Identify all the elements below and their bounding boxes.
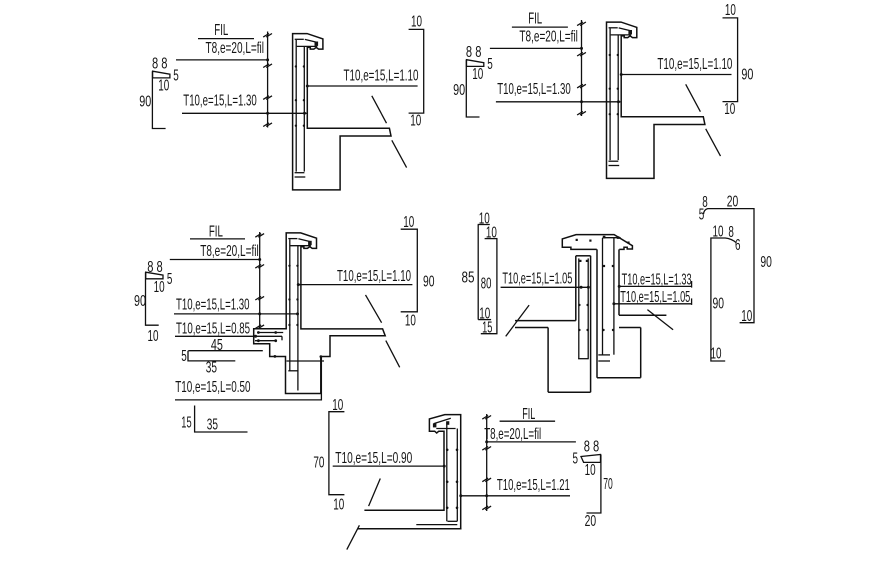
svg-text:10: 10 bbox=[472, 66, 483, 83]
svg-text:10: 10 bbox=[725, 2, 736, 19]
stirrup tick bbox=[482, 416, 491, 420]
leader T10 1.30 bbox=[496, 101, 621, 103]
break diagonal bbox=[347, 525, 360, 549]
bent bar shape bbox=[153, 71, 170, 78]
stirrup dots bbox=[602, 329, 614, 331]
junction dot bbox=[620, 73, 623, 76]
junction dot bbox=[258, 312, 261, 315]
parapet wall outline bbox=[607, 22, 705, 178]
rebar hook long bbox=[416, 524, 457, 526]
wall rebar right bbox=[456, 429, 458, 522]
svg-text:T8,e=20,L=fil: T8,e=20,L=fil bbox=[484, 426, 541, 443]
rebar hook bbox=[448, 520, 458, 522]
svg-text:10: 10 bbox=[724, 101, 735, 118]
svg-text:T8,e=20,L=fil: T8,e=20,L=fil bbox=[519, 29, 578, 46]
break diagonal bbox=[369, 479, 381, 507]
rebar hook bbox=[609, 160, 619, 162]
svg-text:10: 10 bbox=[713, 224, 724, 241]
rebar hook bbox=[609, 165, 620, 167]
svg-text:T10,e=15,L=1.10: T10,e=15,L=1.10 bbox=[337, 268, 411, 285]
left wall top bbox=[576, 255, 591, 257]
right slab top bbox=[619, 314, 666, 316]
wall rebar left bbox=[446, 422, 448, 522]
bar leg 45 bbox=[188, 350, 262, 352]
right dim bracket bbox=[409, 29, 424, 113]
wall rebar right bbox=[303, 47, 305, 172]
left wall rebar bbox=[578, 258, 580, 358]
svg-text:5: 5 bbox=[173, 68, 179, 85]
coping cap outline bbox=[562, 235, 632, 250]
cap rebar upper bbox=[436, 428, 455, 430]
bar hook bbox=[281, 336, 283, 340]
stirrup dots bbox=[609, 54, 619, 116]
svg-text:20: 20 bbox=[727, 194, 739, 211]
right wall right face bbox=[618, 249, 620, 315]
leader T10 1.33 bbox=[619, 285, 691, 287]
break diagonal bbox=[686, 84, 701, 111]
cap rebar squares bbox=[576, 236, 630, 244]
svg-text:5: 5 bbox=[573, 450, 579, 467]
leader T8 bbox=[487, 441, 576, 443]
cap rebar upper bbox=[609, 27, 618, 29]
svg-text:10: 10 bbox=[486, 224, 497, 241]
svg-text:T10,e=15,L=0.50: T10,e=15,L=0.50 bbox=[175, 379, 250, 396]
dim bracket 90 bbox=[152, 71, 165, 128]
cap rebar lower bbox=[297, 45, 318, 47]
cap rebar line bbox=[603, 237, 621, 239]
left slab underside bbox=[515, 327, 548, 329]
rebar hook bbox=[295, 176, 306, 178]
wall rebar right bbox=[617, 35, 619, 160]
wall rebar left bbox=[289, 239, 291, 371]
FIL underline bbox=[512, 26, 568, 28]
svg-text:T10,e=15,L=1.21: T10,e=15,L=1.21 bbox=[497, 477, 570, 494]
bar bend 5 bbox=[188, 351, 235, 361]
left slab top bbox=[515, 320, 576, 322]
left wall left face bbox=[575, 256, 577, 321]
svg-text:35: 35 bbox=[207, 417, 218, 434]
bar bend 15/35 bbox=[195, 406, 248, 433]
svg-text:T10,e=15,L=1.30: T10,e=15,L=1.30 bbox=[176, 296, 250, 313]
leader T8 bbox=[490, 47, 582, 49]
junction dot bbox=[296, 312, 299, 315]
svg-text:70: 70 bbox=[313, 455, 324, 472]
right bottom bbox=[597, 377, 641, 379]
stirrup tick bbox=[263, 96, 272, 100]
cap rebar upper bbox=[288, 238, 297, 240]
svg-text:35: 35 bbox=[206, 359, 217, 376]
svg-text:10: 10 bbox=[332, 397, 343, 414]
landing rebar upper bbox=[258, 332, 284, 334]
svg-text:5: 5 bbox=[181, 348, 187, 365]
svg-text:10: 10 bbox=[711, 346, 722, 363]
parapet wall outline bbox=[293, 34, 391, 190]
svg-text:10: 10 bbox=[333, 497, 344, 514]
left break diagonal bbox=[506, 305, 529, 336]
rebar hook bbox=[578, 358, 589, 360]
dim bracket 90 bbox=[146, 272, 159, 325]
svg-text:T10,e=15,L=0.90: T10,e=15,L=0.90 bbox=[335, 450, 412, 467]
leader T10 1.30 bbox=[174, 313, 298, 315]
stirrup squares bbox=[603, 265, 614, 267]
cap rebar sloped bbox=[305, 39, 317, 42]
left dim bracket 70 bbox=[329, 412, 345, 495]
stirrup line bbox=[581, 20, 583, 116]
stirrup tick bbox=[255, 296, 264, 300]
FIL underline bbox=[500, 420, 555, 422]
dim bracket 90 bbox=[466, 60, 479, 117]
wall rebar left bbox=[295, 40, 297, 172]
FIL underline bbox=[198, 38, 254, 40]
bent bar shape bbox=[146, 272, 163, 279]
rebar hooks bbox=[598, 354, 610, 356]
svg-text:90: 90 bbox=[453, 82, 465, 99]
stirrup tick bbox=[255, 325, 264, 329]
svg-text:FIL: FIL bbox=[528, 11, 542, 28]
stirrup line bbox=[259, 232, 261, 328]
svg-text:T10,e=15,L=1.05: T10,e=15,L=1.05 bbox=[620, 289, 690, 306]
svg-text:10: 10 bbox=[154, 279, 165, 296]
svg-text:FIL: FIL bbox=[214, 22, 228, 39]
svg-text:8: 8 bbox=[728, 224, 734, 241]
stirrup tick bbox=[482, 447, 491, 451]
rebar hook bbox=[288, 370, 298, 372]
stirrup line bbox=[486, 414, 488, 511]
wall outline mirrored bbox=[364, 415, 460, 529]
leader T10 1.05 right bbox=[614, 303, 692, 305]
bent bar shape bbox=[581, 455, 601, 463]
step rebar bbox=[287, 360, 325, 362]
break diagonal bbox=[372, 96, 387, 123]
svg-text:5: 5 bbox=[487, 56, 493, 73]
svg-text:T10,e=15,L=0.85: T10,e=15,L=0.85 bbox=[176, 320, 250, 337]
leader T10 1.10 bbox=[298, 284, 412, 286]
left bottom bbox=[548, 391, 591, 393]
left outer dim bracket 85 bbox=[478, 224, 490, 226]
junction dot bbox=[266, 58, 269, 61]
leader left bbox=[501, 286, 589, 288]
left inner dim bracket 80 bbox=[485, 238, 498, 240]
break diagonal bbox=[706, 129, 721, 156]
junction dot bbox=[617, 100, 620, 103]
leader T10 1.21 bbox=[461, 495, 570, 497]
junction dot bbox=[258, 258, 261, 261]
svg-text:15: 15 bbox=[181, 414, 191, 431]
svg-text:85: 85 bbox=[462, 270, 475, 287]
svg-text:T8,e=20,L=fil: T8,e=20,L=fil bbox=[206, 40, 265, 57]
DETAIL C bbox=[134, 214, 435, 433]
junction dot bbox=[580, 100, 583, 103]
svg-text:FIL: FIL bbox=[522, 406, 535, 423]
svg-text:15: 15 bbox=[482, 319, 492, 336]
stirrup dots bbox=[288, 265, 298, 327]
cap rebar lower bbox=[290, 245, 311, 247]
stirrup tick bbox=[577, 84, 586, 88]
stirrup tick bbox=[577, 52, 586, 56]
rebar hook bbox=[295, 172, 305, 174]
stirrup tick bbox=[255, 234, 264, 238]
stirrup tick bbox=[263, 123, 272, 127]
svg-text:T10,e=15,L=1.10: T10,e=15,L=1.10 bbox=[344, 67, 419, 84]
leader T10 1.10 bbox=[621, 74, 731, 76]
cap rebar sloped bbox=[434, 418, 451, 423]
leader T10 0.85 bbox=[175, 335, 282, 337]
stirrup tick bbox=[255, 265, 264, 269]
leader T8 bbox=[176, 59, 268, 61]
cap rebar sloped bbox=[619, 28, 631, 31]
stirrup squares bbox=[579, 260, 588, 262]
right outer dim bracket bbox=[704, 209, 755, 323]
cap rebar upper bbox=[295, 38, 304, 40]
svg-text:90: 90 bbox=[741, 67, 753, 84]
junction dot bbox=[266, 112, 269, 115]
svg-text:90: 90 bbox=[134, 293, 146, 310]
svg-text:T10,e=15,L=1.05: T10,e=15,L=1.05 bbox=[502, 271, 572, 288]
break diagonal bbox=[366, 295, 382, 323]
svg-text:80: 80 bbox=[481, 276, 492, 293]
svg-text:6: 6 bbox=[735, 237, 741, 254]
svg-text:90: 90 bbox=[713, 295, 725, 312]
DETAIL B bbox=[453, 2, 753, 178]
right wall rebar bbox=[602, 238, 604, 355]
wall rebar right bbox=[297, 246, 299, 371]
right dim bracket bbox=[401, 229, 418, 312]
svg-text:10: 10 bbox=[148, 328, 159, 345]
leader T8 bbox=[170, 259, 260, 261]
step dot bbox=[274, 355, 277, 358]
wall and stair outline bbox=[254, 233, 386, 394]
svg-text:10: 10 bbox=[411, 14, 422, 31]
left beam face bbox=[547, 328, 549, 393]
DETAIL A bbox=[139, 14, 424, 190]
svg-text:20: 20 bbox=[585, 513, 597, 530]
svg-text:5: 5 bbox=[699, 207, 705, 224]
stirrup tick bbox=[482, 478, 491, 482]
right wall left face bbox=[596, 249, 598, 377]
DETAIL E bbox=[313, 397, 612, 550]
junction dot bbox=[297, 283, 300, 286]
step dot bbox=[320, 355, 323, 358]
stirrup tick bbox=[263, 34, 272, 38]
leader T10 0.50 bbox=[175, 357, 321, 400]
leader T10 1.30 bbox=[182, 112, 307, 114]
svg-text:FIL: FIL bbox=[209, 224, 223, 241]
right dim bracket bbox=[587, 455, 601, 514]
right beam face bbox=[640, 328, 642, 378]
right inner dim bracket bbox=[711, 238, 737, 361]
break diagonal bbox=[392, 140, 407, 167]
svg-text:90: 90 bbox=[139, 93, 151, 110]
leader T10 0.90 bbox=[333, 465, 445, 467]
junction dot bbox=[306, 85, 309, 88]
svg-text:5: 5 bbox=[167, 271, 173, 288]
stirrup tick bbox=[263, 64, 272, 68]
right slab underside bbox=[619, 327, 641, 329]
DETAIL D bbox=[462, 194, 772, 393]
FIL underline bbox=[190, 238, 245, 240]
svg-text:90: 90 bbox=[423, 273, 435, 290]
svg-text:10: 10 bbox=[405, 313, 416, 330]
stirrup dots bbox=[295, 65, 305, 127]
bent bar shape bbox=[467, 60, 484, 67]
svg-text:10: 10 bbox=[403, 214, 414, 231]
left wall right face bbox=[590, 256, 592, 392]
stirrup line bbox=[267, 32, 269, 128]
junction dots bbox=[580, 286, 590, 289]
junction dot bbox=[254, 335, 257, 338]
stirrup dots bbox=[578, 304, 589, 331]
break diagonal bbox=[386, 341, 400, 368]
svg-text:T8,e=20,L=fil: T8,e=20,L=fil bbox=[200, 243, 259, 260]
stirrup dots bbox=[446, 449, 458, 510]
stirrup tick bbox=[577, 111, 586, 115]
svg-text:70: 70 bbox=[603, 476, 613, 493]
right break diagonal bbox=[647, 310, 673, 330]
wall rebar left bbox=[609, 29, 611, 161]
leader T10 1.10 bbox=[307, 85, 417, 87]
svg-text:10: 10 bbox=[410, 113, 421, 130]
stirrup tick bbox=[577, 22, 586, 26]
svg-text:T10,e=15,L=1.10: T10,e=15,L=1.10 bbox=[657, 56, 732, 73]
bottom line bbox=[358, 528, 462, 530]
cap rebar sloped bbox=[298, 239, 310, 242]
junction dot bbox=[580, 47, 583, 50]
rebar leg bbox=[297, 371, 299, 391]
svg-text:10: 10 bbox=[585, 462, 596, 479]
svg-text:10: 10 bbox=[158, 78, 169, 95]
svg-text:T10,e=15,L=1.30: T10,e=15,L=1.30 bbox=[183, 93, 257, 110]
svg-text:T10,e=15,L=1.30: T10,e=15,L=1.30 bbox=[497, 81, 571, 98]
svg-text:8 8: 8 8 bbox=[466, 44, 482, 61]
cap rebar lower bbox=[611, 34, 632, 36]
svg-text:8 8: 8 8 bbox=[152, 56, 168, 73]
svg-text:10: 10 bbox=[741, 308, 752, 325]
svg-text:90: 90 bbox=[760, 254, 772, 271]
svg-text:T10,e=15,L=1.33: T10,e=15,L=1.33 bbox=[622, 272, 692, 289]
stirrup tick bbox=[482, 506, 491, 510]
right dim bracket bbox=[723, 18, 738, 102]
junction dot bbox=[303, 112, 306, 115]
landing rebar lower bbox=[255, 340, 277, 342]
svg-text:8 8: 8 8 bbox=[584, 439, 600, 456]
